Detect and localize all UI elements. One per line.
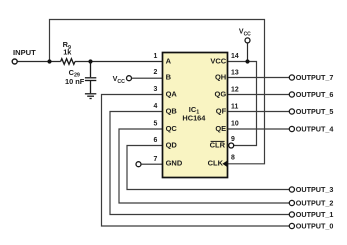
svg-text:QE: QE [215, 124, 226, 133]
svg-text:5: 5 [154, 121, 158, 128]
svg-text:OUTPUT_2: OUTPUT_2 [296, 198, 334, 207]
svg-text:QF: QF [216, 106, 227, 115]
power VCC (pin 2) [127, 76, 132, 81]
terminal OUTPUT_7 [289, 75, 294, 80]
node: pin 14 junction [245, 59, 249, 63]
terminal OUTPUT_3 [289, 187, 294, 192]
capacitor C29 [85, 62, 96, 94]
svg-text:3: 3 [154, 86, 158, 93]
svg-text:1: 1 [154, 53, 158, 60]
svg-text:6: 6 [154, 137, 158, 144]
wire: resistor to pin 1 A [75, 61, 163, 63]
inversion bubble CLR (pin 9) [229, 143, 234, 148]
svg-text:13: 13 [231, 69, 239, 76]
wire: QB (pin 4) to OUTPUT_1 [110, 112, 289, 215]
svg-text:10: 10 [231, 121, 239, 128]
svg-text:OUTPUT_6: OUTPUT_6 [296, 90, 334, 99]
svg-text:OUTPUT_1: OUTPUT_1 [296, 210, 334, 219]
svg-text:11: 11 [231, 103, 238, 110]
svg-text:OUTPUT_0: OUTPUT_0 [296, 221, 334, 230]
svg-text:INPUT: INPUT [13, 48, 36, 57]
node: input junction [47, 59, 51, 63]
svg-text:CLK: CLK [208, 159, 224, 168]
wire: QA (pin 3) to OUTPUT_0 [102, 95, 290, 227]
IC IC1 HC164 body [163, 53, 228, 178]
svg-text:B: B [166, 72, 172, 81]
svg-text:OUTPUT_5: OUTPUT_5 [296, 107, 334, 116]
svg-text:10 nF: 10 nF [65, 77, 85, 86]
wire: QC (pin 5) to OUTPUT_2 [119, 129, 289, 203]
wire: VCC symbol to pin 14 [247, 43, 249, 62]
svg-text:12: 12 [231, 86, 239, 93]
svg-text:QH: QH [215, 72, 226, 81]
svg-text:14: 14 [231, 53, 239, 60]
terminal OUTPUT_2 [289, 200, 294, 205]
resistor R9 [61, 59, 75, 65]
ground (C29) [85, 94, 96, 99]
terminal OUTPUT_0 [289, 223, 294, 228]
wire: QH (pin 13) to OUTPUT_7 [228, 77, 290, 79]
wire: QE (pin 10) to OUTPUT_4 [228, 128, 290, 130]
svg-text:8: 8 [231, 154, 235, 161]
wire: VCC to pin 2 B [132, 77, 163, 79]
svg-text:QC: QC [166, 124, 178, 133]
wire: QG (pin 12) to OUTPUT_6 [228, 94, 290, 96]
svg-text:VCC: VCC [210, 56, 226, 65]
node: RC junction [88, 59, 92, 63]
svg-text:OUTPUT_7: OUTPUT_7 [296, 73, 334, 82]
svg-text:QG: QG [215, 89, 227, 98]
svg-text:OUTPUT_4: OUTPUT_4 [296, 124, 334, 133]
svg-text:9: 9 [231, 136, 235, 143]
svg-text:1k: 1k [63, 48, 72, 57]
wire: QD (pin 6) to OUTPUT_3 [127, 146, 289, 190]
svg-text:4: 4 [154, 103, 158, 110]
svg-text:GND: GND [166, 159, 183, 168]
wire: pin 14 VCC tie [228, 62, 257, 146]
svg-text:2: 2 [154, 69, 158, 76]
terminal OUTPUT_4 [289, 126, 294, 131]
svg-text:7: 7 [154, 156, 158, 163]
wire: terminal to GND pin 7 [141, 163, 163, 165]
svg-text:QA: QA [166, 89, 178, 98]
svg-text:QB: QB [166, 106, 178, 115]
svg-text:OUTPUT_3: OUTPUT_3 [296, 185, 334, 194]
terminal OUTPUT_1 [289, 212, 294, 217]
svg-text:A: A [166, 56, 172, 65]
terminal OUTPUT_6 [289, 92, 294, 97]
svg-text:HC164: HC164 [182, 113, 206, 122]
ground terminal (pin 7) [136, 162, 141, 167]
svg-text:QD: QD [166, 140, 178, 149]
terminal OUTPUT_5 [289, 109, 294, 114]
clock edge triangle (pin 8) [222, 161, 227, 167]
input terminal [12, 59, 17, 64]
wire: input junction up and across to CLK vertical [50, 20, 265, 164]
power VCC (pin 14) [245, 38, 250, 43]
wire: QF (pin 11) to OUTPUT_5 [228, 111, 290, 113]
wire: input terminal to resistor [17, 61, 60, 63]
